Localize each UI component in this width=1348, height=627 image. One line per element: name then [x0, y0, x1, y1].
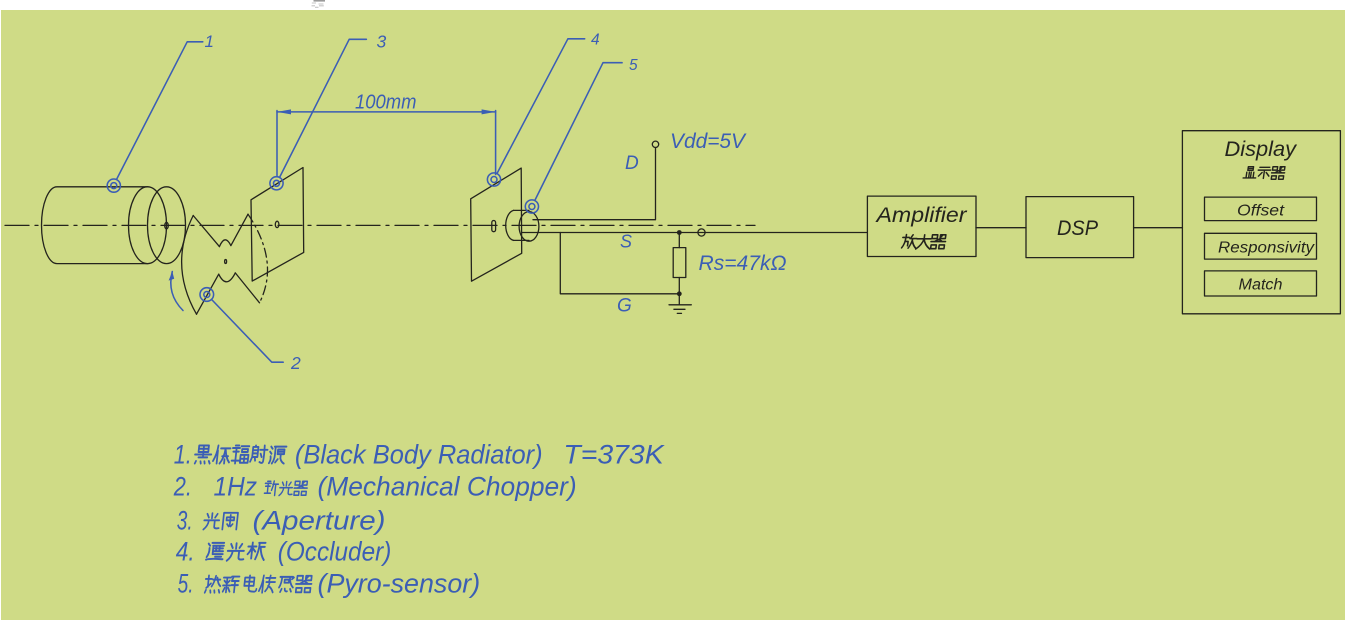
svg-text:1: 1 — [205, 32, 214, 51]
svg-text:100mm: 100mm — [355, 91, 417, 114]
optical axis (dash-dot center line) — [5, 224, 755, 226]
svg-text:Amplifier: Amplifier — [874, 204, 967, 227]
svg-text:Match: Match — [1239, 277, 1283, 294]
svg-text:2: 2 — [290, 353, 301, 373]
occluder plate — [471, 168, 522, 281]
热 — [204, 576, 221, 593]
svg-text:G: G — [617, 296, 632, 317]
legend line 2 — [173, 472, 577, 502]
svg-text:(Mechanical Chopper): (Mechanical Chopper) — [318, 472, 577, 502]
黑 — [194, 446, 212, 464]
DSP box — [1026, 197, 1134, 258]
光 — [279, 482, 293, 496]
legend line 1 — [174, 439, 665, 469]
svg-text:5: 5 — [629, 57, 638, 74]
svg-text:5.: 5. — [178, 569, 194, 599]
aperture plate — [251, 168, 304, 282]
chopper hub upper arc — [219, 240, 231, 247]
svg-text:3.: 3. — [177, 506, 193, 536]
svg-text:3: 3 — [377, 32, 387, 52]
cylinder front face ellipse — [148, 187, 186, 264]
svg-text:Responsivity: Responsivity — [1218, 240, 1315, 257]
CJK: 放大器 (amplifier) — [901, 235, 946, 250]
cylinder center mark — [165, 222, 169, 229]
光 — [227, 543, 245, 560]
node open circle — [698, 229, 705, 236]
svg-text:1.: 1. — [174, 439, 192, 469]
legend line 3 — [177, 506, 386, 536]
svg-text:Offset: Offset — [1237, 203, 1285, 220]
legend line 4 — [176, 537, 392, 567]
svg-text:4: 4 — [591, 32, 600, 49]
junction dot at ground node — [677, 291, 682, 296]
leader 2 (chopper) — [200, 288, 301, 374]
chopper upper-right blade edge — [231, 214, 248, 245]
板 — [247, 543, 266, 560]
chopper left edge arc — [182, 216, 197, 315]
传 — [259, 576, 276, 593]
器 — [295, 576, 312, 593]
leader 3 (aperture) — [270, 32, 387, 190]
extension line left — [276, 111, 278, 176]
电 — [244, 576, 258, 592]
svg-text:S: S — [620, 232, 632, 252]
dimension line — [277, 111, 496, 113]
wire: Vdd drop — [655, 148, 657, 220]
offset sub-box — [1205, 197, 1317, 221]
Vdd supply terminal — [652, 130, 747, 219]
100mm dimension — [277, 91, 496, 176]
射 — [250, 446, 268, 463]
svg-text:2.: 2. — [173, 472, 192, 502]
dimension arrowheads — [277, 109, 496, 114]
responsivity sub-box — [1205, 233, 1317, 259]
wire: drain lead — [533, 219, 656, 221]
ground — [669, 294, 691, 314]
源 — [269, 447, 287, 464]
extension line right — [495, 111, 497, 175]
legend line 5 — [178, 569, 481, 599]
遮 — [206, 543, 224, 560]
CJK: 显示器 (display) — [1243, 167, 1285, 179]
svg-text:Vdd=5V: Vdd=5V — [670, 130, 747, 153]
resistor Rs — [673, 234, 686, 294]
black body radiator: cylinder body — [41, 187, 185, 264]
wire: source lead to amplifier — [522, 232, 867, 234]
svg-text:(Pyro-sensor): (Pyro-sensor) — [318, 569, 481, 599]
chopper upper-left blade edge — [193, 216, 219, 247]
junction dot at S node — [677, 230, 682, 235]
辐 — [231, 446, 249, 464]
chopper lower-left blade edge — [197, 274, 219, 314]
amplifier box U1 — [867, 196, 976, 256]
svg-text:(Aperture): (Aperture) — [253, 506, 386, 536]
svg-text:T=373K: T=373K — [563, 439, 664, 469]
svg-text:(Occluder): (Occluder) — [278, 537, 392, 567]
感 — [279, 577, 295, 592]
chopper hub center mark — [225, 260, 227, 264]
svg-text:D: D — [625, 153, 639, 174]
释 — [222, 577, 239, 593]
chopper hub lower arc — [219, 273, 236, 282]
svg-text:4.: 4. — [176, 537, 195, 567]
chopper rotation arrow — [169, 272, 183, 311]
wire: gate return — [560, 233, 679, 294]
leader 4 (occluder) — [487, 32, 600, 187]
display box — [1182, 131, 1340, 314]
svg-text:DSP: DSP — [1057, 217, 1098, 240]
wire: amplifier to DSP — [976, 227, 1026, 229]
cylinder rim ellipse — [129, 187, 167, 264]
wire: DSP to display — [1134, 227, 1183, 229]
mechanical chopper wheel — [182, 214, 268, 314]
leader 1 (black body) — [107, 32, 214, 192]
occluder slot — [492, 221, 496, 232]
pyro-sensor can — [506, 210, 539, 241]
svg-text:1Hz: 1Hz — [214, 472, 258, 502]
leader 5 (pyro-sensor) — [525, 57, 638, 213]
chopper right edge arc (hidden, dash-dot) — [248, 214, 268, 303]
aperture hole — [275, 221, 279, 227]
stray gray mark top center — [312, 1, 326, 8]
光 — [203, 513, 220, 529]
器 — [293, 481, 307, 495]
体 — [213, 446, 231, 464]
svg-text:(Black Body Radiator): (Black Body Radiator) — [295, 439, 543, 469]
斩 — [264, 481, 279, 496]
chopper lower-right blade edge — [235, 273, 259, 303]
阑 — [222, 513, 238, 530]
match sub-box — [1205, 271, 1317, 296]
svg-text:Display: Display — [1225, 138, 1298, 161]
svg-text:Rs=47kΩ: Rs=47kΩ — [699, 252, 787, 275]
